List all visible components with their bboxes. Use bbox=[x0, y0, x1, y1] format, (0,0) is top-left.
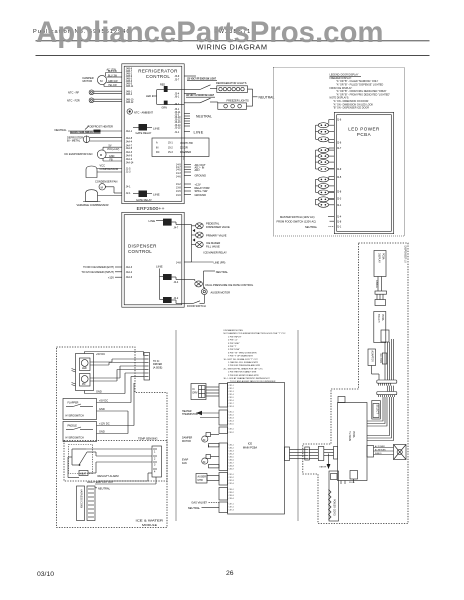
damper motor M5 bbox=[182, 433, 219, 448]
LED power PCBA board bbox=[334, 112, 393, 233]
svg-text:LINE: LINE bbox=[153, 192, 160, 196]
water valve bus bbox=[184, 225, 213, 263]
pins row 2 bbox=[379, 395, 395, 397]
LED power outer enclosure bbox=[274, 68, 405, 237]
svg-text:MOTOR: MOTOR bbox=[83, 79, 93, 83]
svg-text:"B" ON - DISPENSER ICE DOOR: "B" ON - DISPENSER ICE DOOR bbox=[333, 107, 369, 110]
flapper hygroswitch box bbox=[63, 377, 144, 420]
svg-text:MODULE: MODULE bbox=[142, 523, 157, 527]
svg-text:MOTOR: MOTOR bbox=[182, 440, 191, 443]
svg-text:J1-8: J1-8 bbox=[337, 220, 342, 223]
svg-text:HIGH TEMP CUT OUT: HIGH TEMP CUT OUT bbox=[87, 480, 114, 484]
svg-text:AppliancePartsPros.com: AppliancePartsPros.com bbox=[36, 16, 384, 49]
svg-text:5V: 5V bbox=[109, 144, 112, 147]
dispenser control board U2 bbox=[122, 212, 184, 307]
main board pin name column bbox=[229, 385, 234, 512]
wires below display bbox=[378, 277, 382, 292]
temp sensing connector J11 bbox=[152, 446, 162, 477]
svg-text:REFRIGERATOR LIGHTS: REFRIGERATOR LIGHTS bbox=[216, 81, 247, 85]
svg-text:GROUND: GROUND bbox=[195, 174, 207, 178]
svg-text:2 PIN "+5": 2 PIN "+5" bbox=[228, 340, 238, 342]
svg-text:GATE RELAY: GATE RELAY bbox=[136, 198, 152, 202]
svg-text:+5V DC: +5V DC bbox=[96, 352, 105, 356]
svg-text:LINE: LINE bbox=[153, 126, 160, 130]
svg-text:LINE (PR): LINE (PR) bbox=[214, 261, 226, 265]
svg-text:FAN: FAN bbox=[182, 462, 187, 465]
svg-text:30 - LOOK AT CHARACTERISTIC RA: 30 - LOOK AT CHARACTERISTIC RATINGS NO? bbox=[224, 377, 271, 380]
svg-text:CN1-7: CN1-7 bbox=[229, 403, 234, 405]
svg-text:SPKL / SW: SPKL / SW bbox=[195, 189, 208, 193]
svg-text:J4-1: J4-1 bbox=[126, 185, 131, 188]
svg-text:J3-6: J3-6 bbox=[176, 194, 181, 197]
RC right pin labels bbox=[175, 75, 182, 197]
svg-text:J4-6: J4-6 bbox=[176, 176, 181, 179]
svg-text:ERF2500++: ERF2500++ bbox=[137, 206, 165, 211]
damper motor M1 bbox=[83, 70, 123, 87]
LED panel supply labels bbox=[277, 215, 335, 229]
svg-text:SELECT: SELECT bbox=[376, 405, 379, 415]
svg-text:J4A-3: J4A-3 bbox=[126, 266, 133, 269]
arrows on valve bus bbox=[193, 229, 196, 242]
svg-text:CN4-4: CN4-4 bbox=[229, 454, 234, 456]
svg-text:NTC - RF: NTC - RF bbox=[68, 90, 80, 94]
svg-text:GAS VALVE?: GAS VALVE? bbox=[191, 501, 207, 505]
svg-text:PCBA: PCBA bbox=[357, 132, 371, 137]
svg-text:LED POWER: LED POWER bbox=[348, 127, 380, 132]
svg-text:CN2-3: CN2-3 bbox=[229, 418, 234, 420]
thermal relay bbox=[68, 445, 152, 479]
svg-text:J5-1: J5-1 bbox=[168, 142, 173, 145]
svg-text:J1-1: J1-1 bbox=[337, 226, 342, 229]
gas valve + neutral wires bbox=[188, 501, 219, 510]
svg-text:J6-1: J6-1 bbox=[175, 96, 180, 99]
paddle hygroswitch box bbox=[63, 383, 134, 442]
svg-text:1 CAM DLL FILL SIGNALS MTR: 1 CAM DLL FILL SIGNALS MTR bbox=[228, 361, 258, 364]
neutral pin cluster bbox=[184, 114, 190, 127]
HU left edge connector bbox=[334, 447, 338, 460]
svg-text:DC EVAPORATOR FAN: DC EVAPORATOR FAN bbox=[65, 152, 93, 156]
svg-text:TO FZ ICE MAKER (INPUT): TO FZ ICE MAKER (INPUT) bbox=[81, 270, 114, 274]
svg-text:NEUTRAL: NEUTRAL bbox=[196, 114, 212, 118]
svg-text:TO RF ICE MAKER (EXIT): TO RF ICE MAKER (EXIT) bbox=[83, 265, 114, 269]
LED group link wires bbox=[316, 120, 335, 205]
AC adapter box (rotated) bbox=[368, 349, 379, 380]
svg-text:1 PIN "INPUT": 1 PIN "INPUT" bbox=[228, 336, 242, 338]
svg-text:MTR: MTR bbox=[198, 479, 203, 482]
svg-text:J3-2: J3-2 bbox=[176, 183, 181, 186]
section divider line B bbox=[297, 330, 299, 521]
variable compressor bbox=[77, 190, 123, 207]
svg-text:NEUTRAL: NEUTRAL bbox=[55, 128, 68, 132]
svg-text:GATE RELAY: GATE RELAY bbox=[136, 131, 152, 135]
main board connector block C5 bbox=[219, 473, 228, 486]
svg-text:J4B-12: J4B-12 bbox=[126, 101, 134, 104]
LED lamp column bbox=[316, 119, 342, 229]
HU right connector block bbox=[367, 446, 374, 458]
svg-text:26: 26 bbox=[226, 570, 234, 577]
svg-text:DRV: DRV bbox=[193, 392, 198, 395]
ice main PCBA board bbox=[228, 383, 285, 515]
LED1 block inside RC bbox=[146, 83, 184, 109]
svg-text:PCBA: PCBA bbox=[381, 314, 384, 321]
svg-text:CN4-8: CN4-8 bbox=[229, 466, 234, 468]
svg-text:J4A-5: J4A-5 bbox=[126, 147, 133, 150]
svg-text:DUAL PRESSURE ICE RATE CON: DUAL PRESSURE ICE RATE CONTROL bbox=[206, 283, 254, 287]
relay K4 bbox=[163, 274, 172, 280]
wires HU to transformer bbox=[374, 448, 394, 455]
svg-text:NEUTRAL: NEUTRAL bbox=[188, 506, 201, 510]
svg-text:CONTROL: CONTROL bbox=[128, 249, 152, 254]
wire bundle down from touch PCBA bbox=[385, 339, 394, 380]
svg-text:CN2-1: CN2-1 bbox=[229, 412, 234, 414]
svg-text:CN3-2: CN3-2 bbox=[229, 432, 234, 434]
svg-text:VORTI-TRI: VORTI-TRI bbox=[180, 141, 193, 145]
svg-text:ICE: ICE bbox=[248, 442, 253, 446]
svg-text:VARIABLE COMPRESSOR: VARIABLE COMPRESSOR bbox=[77, 203, 109, 207]
svg-text:CN4-6: CN4-6 bbox=[229, 460, 234, 462]
svg-text:ICE MAKER RELAY: ICE MAKER RELAY bbox=[204, 250, 228, 254]
aux pin cluster bbox=[184, 184, 191, 195]
svg-text:NO? HEATER CYCLE/RESET/EXTRACT: NO? HEATER CYCLE/RESET/EXTRACTION GOOD T… bbox=[224, 332, 287, 335]
IC driver grid box bbox=[191, 384, 219, 400]
svg-text:IC: IC bbox=[193, 388, 196, 391]
svg-text:GRN: GRN bbox=[162, 107, 168, 110]
svg-text:J1-3: J1-3 bbox=[126, 171, 131, 174]
harness terminal strip B bbox=[87, 486, 95, 521]
svg-text:CN6-3: CN6-3 bbox=[229, 495, 234, 497]
svg-text:PADDLE: PADDLE bbox=[68, 425, 78, 428]
svg-text:J4-4: J4-4 bbox=[174, 281, 179, 284]
svg-text:DOOR: DOOR bbox=[180, 146, 188, 150]
power cord module box bbox=[329, 471, 339, 521]
NTC RF sensor bbox=[68, 90, 122, 95]
defrost heater R1 bbox=[55, 124, 123, 133]
svg-text:J4A-3: J4A-3 bbox=[126, 151, 133, 154]
wires between strips bbox=[309, 450, 318, 459]
svg-text:J4-8: J4-8 bbox=[176, 261, 181, 264]
svg-text:ADJ: ADJ bbox=[195, 168, 201, 172]
heat element box bbox=[79, 471, 88, 476]
left connector strip A bbox=[305, 447, 310, 460]
svg-text:CN1-6: CN1-6 bbox=[229, 400, 234, 402]
DC evaporator fan M2 bbox=[65, 144, 123, 161]
section divider line A bbox=[175, 330, 177, 521]
dispenser left pins bbox=[81, 265, 132, 279]
svg-text:CN7-1: CN7-1 bbox=[229, 504, 234, 506]
svg-text:20 - SWITCH PIN, GEARS FOR "AT: 20 - SWITCH PIN, GEARS FOR "AT" CYC bbox=[224, 367, 264, 370]
svg-text:THERMISTOR: THERMISTOR bbox=[182, 413, 198, 416]
primary valve V2 bbox=[196, 232, 227, 238]
refrigerator lights L1 bbox=[216, 81, 248, 92]
neutral bus for lights bbox=[247, 89, 258, 106]
svg-text:J1-1: J1-1 bbox=[175, 131, 180, 134]
svg-text:HYGROSWITCH: HYGROSWITCH bbox=[66, 414, 84, 417]
gate relay K2 bbox=[133, 191, 160, 202]
svg-text:J2-3: J2-3 bbox=[337, 198, 342, 201]
svg-text:TEMP SENSING: TEMP SENSING bbox=[138, 437, 158, 441]
dispenser internal line bus bbox=[156, 264, 184, 303]
svg-text:CN4-9: CN4-9 bbox=[229, 469, 234, 471]
door damper connector block bbox=[152, 138, 209, 160]
svg-text:CN6-2: CN6-2 bbox=[229, 492, 234, 494]
svg-text:CN1-1: CN1-1 bbox=[229, 385, 234, 387]
svg-text:J4A-8: J4A-8 bbox=[126, 137, 133, 140]
FZ door switch S3 bbox=[184, 94, 218, 104]
dispenser line relay K3 bbox=[149, 219, 185, 230]
svg-text:POWER CORD: POWER CORD bbox=[333, 499, 336, 516]
neutral wire dispenser bbox=[204, 270, 229, 288]
UI touch PCBA box (rotated) bbox=[374, 312, 389, 343]
main PCBA notes bbox=[224, 329, 287, 383]
svg-text:AC POWER: AC POWER bbox=[375, 445, 385, 448]
line PR wire bbox=[176, 261, 225, 265]
svg-text:J4-2: J4-2 bbox=[174, 297, 179, 300]
main board connector block C6 bbox=[219, 488, 228, 501]
ID plug box bbox=[349, 471, 358, 485]
svg-text:J4B-11: J4B-11 bbox=[126, 85, 134, 88]
earth ground symbol bbox=[320, 454, 331, 470]
svg-text:DAMPER: DAMPER bbox=[180, 150, 191, 154]
svg-text:PD: PD bbox=[82, 383, 86, 386]
svg-text:HEAT: HEAT bbox=[80, 473, 87, 476]
svg-text:BLU 1W: BLU 1W bbox=[108, 74, 118, 77]
door switch S4 bbox=[184, 295, 206, 308]
svg-text:FB: FB bbox=[110, 158, 113, 161]
defrost bi-metal S1 bbox=[67, 135, 122, 143]
svg-text:J3-7: J3-7 bbox=[175, 79, 180, 82]
gate relay K1 bbox=[133, 124, 160, 135]
svg-text:5 PIN "LINE": 5 PIN "LINE" bbox=[228, 349, 240, 351]
svg-text:DC: DC bbox=[156, 151, 160, 154]
ambient sensor NTC bbox=[127, 109, 153, 115]
svg-text:DOOR SWITCH: DOOR SWITCH bbox=[187, 304, 206, 308]
connector bar 3 bbox=[377, 380, 397, 383]
svg-text:J2-8: J2-8 bbox=[337, 191, 342, 194]
svg-text:LED: LED bbox=[82, 367, 87, 370]
nested wire bundle right of HU box bbox=[367, 397, 394, 441]
svg-text:2 PIN FOR MONITOR AND MTR: 2 PIN FOR MONITOR AND MTR bbox=[228, 374, 259, 377]
main board connector block C2 bbox=[219, 410, 228, 425]
ribbon connector bar 2 bbox=[375, 300, 386, 306]
svg-text:CN2-5: CN2-5 bbox=[229, 423, 234, 425]
svg-text:CN1-4: CN1-4 bbox=[229, 394, 234, 396]
svg-text:CN2-2: CN2-2 bbox=[229, 415, 234, 417]
dual pressure ice rate control V4 bbox=[184, 280, 254, 287]
svg-text:10 - EXIT DLL SIGNAL FOR "T" C: 10 - EXIT DLL SIGNAL FOR "T" CYC bbox=[224, 358, 259, 361]
svg-text:J4A-6: J4A-6 bbox=[126, 276, 133, 279]
svg-text:FREEZER LIGHTS: FREEZER LIGHTS bbox=[227, 99, 249, 103]
svg-text:J4A-14: J4A-14 bbox=[126, 161, 134, 164]
svg-text:YEL 1W: YEL 1W bbox=[108, 84, 117, 87]
svg-text:AUGER MOTOR: AUGER MOTOR bbox=[211, 290, 231, 294]
svg-text:IN: IN bbox=[156, 146, 159, 149]
display PCBA box (rotated) bbox=[374, 251, 386, 277]
svg-text:ICE & WATER: ICE & WATER bbox=[136, 519, 164, 523]
svg-text:NTC - FZR: NTC - FZR bbox=[67, 98, 80, 102]
svg-text:PLUG: PLUG bbox=[349, 482, 355, 484]
svg-text:CN1-8: CN1-8 bbox=[229, 406, 234, 408]
auger motor M4 bbox=[201, 287, 230, 295]
power cord zigzag bbox=[329, 490, 332, 520]
svg-text:(A SIDE): (A SIDE) bbox=[153, 366, 163, 369]
svg-text:CN3-1: CN3-1 bbox=[229, 429, 234, 431]
svg-text:2 PIN FOR PRESSURE AND MTR: 2 PIN FOR PRESSURE AND MTR bbox=[228, 364, 261, 367]
svg-text:J2-5: J2-5 bbox=[337, 176, 342, 179]
svg-text:EARTH: EARTH bbox=[320, 466, 327, 469]
svg-text:CN4-3: CN4-3 bbox=[229, 451, 234, 453]
ice maker fill valve V3 bbox=[196, 241, 221, 248]
svg-text:CN7-2: CN7-2 bbox=[229, 507, 234, 509]
svg-text:DISPENSER UI: DISPENSER UI bbox=[404, 246, 407, 263]
condenser fan M3 bbox=[95, 179, 122, 193]
svg-text:SHIELD: SHIELD bbox=[375, 453, 382, 455]
ice select box (rotated) bbox=[372, 401, 381, 420]
svg-text:RELAY PWR: RELAY PWR bbox=[195, 186, 210, 190]
pedestal dispenser valve V1 bbox=[196, 222, 230, 229]
svg-text:+12V DC: +12V DC bbox=[99, 422, 110, 426]
svg-text:TOUCH: TOUCH bbox=[377, 314, 380, 323]
pins row 1 bbox=[379, 383, 391, 385]
svg-text:J3-15: J3-15 bbox=[175, 126, 182, 129]
svg-text:HU MAIN: HU MAIN bbox=[348, 431, 351, 441]
LED panel legend notes bbox=[330, 74, 391, 110]
sensor wires to IC driver connector bbox=[85, 359, 145, 394]
svg-text:4 PIN "T": 4 PIN "T" bbox=[228, 346, 237, 348]
dispenser UI module dashed enclosure bbox=[303, 243, 408, 524]
svg-text:03/10: 03/10 bbox=[37, 571, 54, 578]
main board connector block C4 bbox=[219, 443, 228, 471]
svg-text:1 PIN THE FZR STAND? MTR: 1 PIN THE FZR STAND? MTR bbox=[228, 371, 257, 374]
small DC box bbox=[382, 353, 387, 364]
svg-text:GND: GND bbox=[96, 390, 102, 394]
svg-text:J3-5: J3-5 bbox=[176, 190, 181, 193]
svg-text:LINE: LINE bbox=[149, 219, 156, 223]
svg-text:NEUTRAL: NEUTRAL bbox=[98, 486, 111, 490]
svg-text:J4-7: J4-7 bbox=[174, 226, 179, 229]
HU main PCBA box bbox=[338, 403, 368, 481]
svg-text:J4B-4: J4B-4 bbox=[126, 93, 133, 96]
svg-text:LINE: LINE bbox=[156, 264, 163, 268]
svg-text:NEUTRAL: NEUTRAL bbox=[305, 225, 318, 229]
svg-text:PRIMARY VALVE: PRIMARY VALVE bbox=[206, 234, 227, 238]
svg-text:J4A-2: J4A-2 bbox=[126, 271, 133, 274]
svg-text:J2-7: J2-7 bbox=[337, 147, 342, 150]
svg-text:CONDENSER FAN: CONDENSER FAN bbox=[95, 179, 117, 183]
main box right edge connector C8 bbox=[285, 447, 290, 461]
svg-text:CN4-1: CN4-1 bbox=[229, 445, 234, 447]
RF door switch S2 bbox=[184, 76, 217, 90]
svg-text:NEUTRAL: NEUTRAL bbox=[259, 96, 275, 100]
svg-text:ADAPTER: ADAPTER bbox=[371, 351, 374, 363]
high temp cut out label bbox=[87, 480, 114, 490]
svg-text:CABLE: CABLE bbox=[375, 280, 378, 288]
svg-text:J6-4: J6-4 bbox=[175, 103, 180, 106]
line pin bbox=[184, 131, 190, 133]
svg-text:J1-4: J1-4 bbox=[337, 216, 342, 219]
svg-text:GND: GND bbox=[99, 407, 105, 411]
wire HU bottom components bbox=[341, 479, 354, 484]
svg-text:MASTER SWITCH (120V AC): MASTER SWITCH (120V AC) bbox=[280, 215, 315, 219]
svg-text:J5-3: J5-3 bbox=[168, 151, 173, 154]
adj pin cluster bbox=[184, 165, 191, 176]
svg-text:J3-8: J3-8 bbox=[176, 187, 181, 190]
left connector strip B bbox=[318, 447, 324, 461]
connector bar 4 bbox=[377, 392, 397, 395]
svg-text:CN2-4: CN2-4 bbox=[229, 421, 234, 423]
svg-text:FROM FOOD SWITCH (120V AC): FROM FOOD SWITCH (120V AC) bbox=[277, 220, 317, 224]
temp sensing dashed box bbox=[64, 437, 167, 481]
NTC FZR sensor bbox=[67, 98, 122, 103]
svg-text:RED: RED bbox=[160, 83, 165, 86]
LED board pin labels bbox=[337, 119, 342, 229]
svg-text:CN4-7: CN4-7 bbox=[229, 463, 234, 465]
ice level sensor box bbox=[72, 354, 94, 391]
svg-text:NEUTRAL: NEUTRAL bbox=[216, 270, 229, 274]
heater thermistor arrow bbox=[182, 410, 219, 418]
svg-text:3 PIN "GND": 3 PIN "GND" bbox=[228, 343, 240, 345]
svg-text:+12V: +12V bbox=[195, 182, 201, 186]
svg-text:HARNESS CONN: HARNESS CONN bbox=[80, 489, 83, 509]
svg-text:+5V DC: +5V DC bbox=[99, 399, 108, 403]
wires strip B to HU left connector bbox=[324, 450, 334, 456]
svg-text:+12V: +12V bbox=[108, 275, 114, 279]
svg-text:GND: GND bbox=[99, 430, 105, 434]
IC driver interface connector J10 bbox=[144, 353, 163, 381]
svg-text:DC PWR: DC PWR bbox=[379, 354, 382, 364]
svg-text:PCBA: PCBA bbox=[352, 431, 355, 438]
svg-text:CN7-3: CN7-3 bbox=[229, 510, 234, 512]
ribbon connector bar 1 bbox=[375, 291, 387, 294]
svg-text:FILL VALVE: FILL VALVE bbox=[206, 244, 220, 248]
freezer lights L2 bbox=[218, 99, 249, 110]
interconnect wires main box to UI module bbox=[290, 450, 305, 459]
footer bbox=[37, 570, 234, 578]
svg-text:MAIN PCBA: MAIN PCBA bbox=[243, 445, 258, 449]
harness terminal strip A bbox=[77, 486, 85, 521]
HU top connector block bbox=[338, 397, 345, 403]
svg-text:GROUND: GROUND bbox=[195, 193, 207, 197]
svg-text:CN6-1: CN6-1 bbox=[229, 489, 234, 491]
svg-text:CN4-5: CN4-5 bbox=[229, 457, 234, 459]
svg-text:120 VDC? RF DOOR SW. LIGHT: 120 VDC? RF DOOR SW. LIGHT bbox=[187, 78, 216, 81]
ice and water module dashed enclosure bbox=[57, 347, 168, 528]
RC right pin stubs and labels bbox=[184, 114, 212, 197]
svg-text:HYGROSWITCH: HYGROSWITCH bbox=[66, 436, 84, 439]
svg-text:CN5-4: CN5-4 bbox=[229, 483, 234, 485]
main board connector block C1 bbox=[219, 384, 228, 408]
svg-text:CN5-3: CN5-3 bbox=[229, 480, 234, 482]
svg-text:CN5-1: CN5-1 bbox=[229, 474, 234, 476]
RC left pin labels bbox=[126, 68, 134, 196]
wires between bars bbox=[388, 386, 394, 392]
auger motor box M7 bbox=[196, 474, 219, 484]
svg-text:PCBA: PCBA bbox=[382, 253, 385, 260]
+5V DC wire label bbox=[85, 352, 145, 356]
svg-text:J2-9: J2-9 bbox=[337, 168, 342, 171]
svg-text:DISPENSER VALVE: DISPENSER VALVE bbox=[206, 225, 230, 229]
svg-text:CN6-4: CN6-4 bbox=[229, 498, 234, 500]
refrigerator control board U1 bbox=[122, 64, 184, 204]
svg-text:NTC - AMBIENT: NTC - AMBIENT bbox=[134, 110, 153, 114]
svg-text:AC RETURN: AC RETURN bbox=[375, 449, 386, 452]
svg-text:6 PIN "TX" THRU DOWN MTR: 6 PIN "TX" THRU DOWN MTR bbox=[228, 352, 257, 354]
svg-text:CN1-2: CN1-2 bbox=[229, 388, 234, 390]
relay K5 bbox=[163, 297, 172, 303]
svg-text:7 PIN "T" UP GEARS MTR: 7 PIN "T" UP GEARS MTR bbox=[228, 355, 253, 358]
svg-text:RESULT? ALARM: RESULT? ALARM bbox=[98, 474, 119, 478]
svg-text:CN4-2: CN4-2 bbox=[229, 448, 234, 450]
svg-text:J4A-9: J4A-9 bbox=[126, 155, 133, 158]
